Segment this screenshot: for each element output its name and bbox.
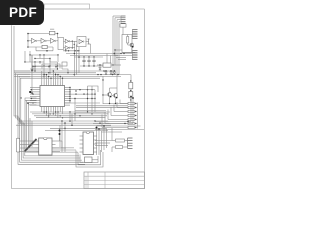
- wire J5 band: [76, 106, 128, 108]
- label R1: [50, 29, 54, 30]
- wire u2r v92: [91, 86, 93, 112]
- wire rh4: [95, 129, 144, 131]
- wire osc out: [86, 41, 89, 43]
- node u2b-1: [43, 111, 44, 112]
- header J4 bar1: [116, 139, 125, 142]
- wire q-right leg: [130, 75, 132, 104]
- node c3: [43, 54, 44, 55]
- node c8: [39, 61, 40, 62]
- wire ctrl v2: [39, 55, 41, 59]
- node extra dots: [43, 72, 95, 116]
- wire q-mid leg: [116, 75, 118, 92]
- wire bus bundle top-right: [113, 16, 119, 75]
- node u2b-4: [60, 115, 61, 116]
- wire u2r vloop: [76, 86, 98, 92]
- node r66-b: [88, 65, 89, 66]
- node ql-1: [102, 79, 103, 80]
- pin stub OSC-OUT: [88, 39, 90, 44]
- node cb-6: [87, 111, 88, 112]
- node u2l-2: [32, 93, 33, 94]
- node j-a: [114, 49, 115, 50]
- resistor R2: [103, 63, 111, 67]
- box Q1 stage: [122, 35, 132, 53]
- component X1: [85, 157, 93, 163]
- node r65-b: [112, 64, 113, 65]
- node cb-11: [71, 124, 73, 126]
- wire u2r h89: [70, 89, 95, 91]
- wire v32: [31, 55, 33, 93]
- wire oscillator feedback top: [28, 33, 58, 35]
- node g2-c: [74, 44, 75, 45]
- wire ctrl h4: [35, 66, 62, 69]
- wire oscillator left leg: [27, 34, 29, 48]
- wire g2 drop3: [78, 47, 80, 73]
- wire g2 drop2: [75, 45, 77, 75]
- wire q-left leg: [102, 76, 104, 104]
- wire J2-J3 links: [114, 50, 132, 65]
- node rl-9: [117, 74, 118, 75]
- box U1G cell: [77, 37, 86, 47]
- wire u1d out: [64, 41, 66, 47]
- node c13: [43, 76, 44, 77]
- capacitor C3: [87, 57, 90, 66]
- capacitor C2: [82, 57, 85, 66]
- node r53-3: [123, 53, 124, 54]
- node rl-8: [112, 74, 113, 75]
- wire g2 drop1: [73, 48, 75, 77]
- node u4-3: [98, 128, 100, 130]
- inverter U1A: [32, 38, 37, 43]
- component K1 box: [62, 62, 67, 66]
- node rl-7d: [114, 70, 115, 71]
- transistor Q1: [130, 43, 134, 48]
- node u2t-5: [57, 74, 58, 75]
- node rl-7: [103, 70, 104, 71]
- node g2-a: [72, 41, 74, 43]
- wire rail65: [97, 64, 121, 66]
- wire above-ic v: [33, 64, 56, 71]
- node v32-b: [31, 92, 33, 94]
- wire rh5: [102, 131, 123, 133]
- node cb-8: [61, 120, 63, 122]
- node c9: [43, 65, 44, 66]
- U2 left pins: [30, 88, 40, 106]
- wire J4 links: [112, 128, 128, 152]
- capacitor C4: [92, 57, 95, 66]
- node r57-d: [93, 56, 94, 57]
- inverter U1B: [41, 38, 46, 43]
- diode D1: [99, 65, 101, 70]
- diode D3: [110, 71, 112, 74]
- node cb-2: [74, 113, 75, 114]
- node r66-a: [83, 65, 84, 66]
- node r57-b: [83, 56, 84, 57]
- node osc-tl: [27, 33, 29, 35]
- node rl-2: [34, 70, 35, 71]
- wire osc out drop: [89, 44, 91, 54]
- node rl-6: [100, 74, 101, 75]
- node u2l-4: [32, 102, 33, 103]
- node ur-3: [91, 89, 92, 90]
- inverter U1E: [65, 39, 70, 43]
- resistor R5: [127, 37, 129, 44]
- U2 right pins: [65, 88, 71, 106]
- wire U3 right links: [56, 141, 67, 152]
- node r66-c: [93, 65, 94, 66]
- wire above-ic h1: [33, 65, 49, 67]
- wire rh1: [95, 121, 131, 123]
- node u3-2: [59, 133, 61, 135]
- wire bottom loops: [76, 151, 103, 168]
- wire rv2: [132, 98, 134, 124]
- IC U4 body: [83, 132, 94, 155]
- wire rh band2: [75, 110, 106, 112]
- node rv-2: [132, 97, 134, 99]
- wire above-ic loop: [42, 64, 60, 69]
- node u4-2: [103, 125, 105, 127]
- wire left bus loops: [14, 71, 85, 164]
- node rv-1: [130, 96, 132, 98]
- wire ctrl h5: [30, 68, 58, 70]
- IC U2 body: [40, 86, 65, 107]
- wire rh2: [93, 123, 133, 125]
- connector J3: [132, 51, 137, 60]
- node cb-12: [64, 128, 66, 130]
- box U1D cell: [58, 38, 64, 50]
- wire inverter rail: [28, 40, 58, 42]
- wire ctrl h2: [35, 59, 57, 63]
- node rs-2: [130, 90, 131, 91]
- transistor Q2: [108, 92, 112, 97]
- node rl-1: [31, 70, 32, 71]
- wire u2r h103: [65, 102, 101, 104]
- node cb-1: [69, 111, 70, 112]
- transistor Q3: [114, 93, 118, 98]
- wire rail57: [74, 56, 103, 58]
- node cb-10: [69, 120, 71, 122]
- wire U4 right bundle: [97, 126, 107, 155]
- wire ctrl stair: [62, 69, 68, 73]
- wire rv1: [130, 97, 132, 122]
- wire rh3: [97, 125, 141, 127]
- node u2t-6: [62, 78, 63, 79]
- diode D4: [113, 71, 115, 74]
- wire g2 mid: [69, 41, 77, 47]
- node osc-bl: [27, 46, 29, 48]
- node c10: [49, 65, 50, 66]
- node g50-2: [68, 50, 69, 51]
- node osc feedback tap: [57, 33, 59, 35]
- node cb-7: [91, 113, 92, 114]
- wire cb verticals: [30, 112, 72, 152]
- node c1-bot: [46, 50, 48, 52]
- wire center bus: [16, 112, 111, 130]
- wire q base links: [103, 88, 117, 96]
- node lb-3: [20, 97, 21, 98]
- node r53-2: [120, 53, 121, 54]
- IC U3 body: [39, 138, 52, 155]
- node r57-c: [88, 56, 89, 57]
- node r53-1: [114, 53, 116, 55]
- wire g2 tri drops: [66, 49, 69, 52]
- wire bl-links: [92, 150, 103, 160]
- node cb-9: [64, 122, 66, 124]
- wire v75: [74, 99, 76, 122]
- node lb-2: [27, 102, 29, 104]
- annotation arrow: [25, 139, 37, 152]
- inverter U1C: [51, 38, 56, 43]
- node g50-3: [74, 50, 75, 51]
- connector J5: [128, 102, 137, 128]
- node u2t-1: [46, 74, 47, 75]
- node rh-2: [124, 123, 125, 124]
- wire R2 feeds: [107, 54, 111, 64]
- node u2t-4: [53, 70, 54, 71]
- wire rail50 group2: [63, 50, 80, 52]
- node u2b-5: [62, 117, 63, 118]
- node cb-3: [79, 115, 80, 116]
- wire rail78: [20, 77, 100, 79]
- node rs-1: [130, 80, 131, 81]
- wire rail66r: [80, 65, 110, 67]
- wire rail76: [14, 75, 121, 77]
- node rl-3: [67, 72, 68, 73]
- wire osc-ctrl drops: [25, 51, 30, 62]
- U2 bottom pins: [42, 107, 63, 111]
- node v32-a: [31, 69, 33, 71]
- node rl-7b: [105, 70, 106, 71]
- node u2b-2: [49, 113, 50, 114]
- node r65-a: [99, 64, 100, 65]
- wire U2 right collector: [69, 88, 71, 104]
- wire rail72: [14, 72, 96, 74]
- PDF badge: [0, 0, 44, 25]
- node r57-a: [78, 56, 80, 58]
- resistor R1: [49, 31, 55, 34]
- wire rail74: [14, 74, 131, 76]
- node ur-4: [87, 93, 88, 94]
- node ur-5: [91, 93, 92, 94]
- wire ctrl v3: [57, 55, 59, 62]
- U4 pins: [80, 136, 98, 152]
- wire rail55: [70, 55, 118, 57]
- wire ctrl h3: [25, 61, 44, 63]
- header J4 bar2: [116, 146, 123, 149]
- inverter U1G: [79, 39, 84, 43]
- node ql-2: [102, 94, 103, 95]
- node c11: [57, 65, 58, 66]
- wire J1-Q1 link: [122, 27, 124, 34]
- U3 pins: [35, 141, 55, 152]
- node c12: [57, 68, 58, 69]
- node g50-1: [65, 50, 66, 51]
- node cb-4: [94, 120, 95, 121]
- wire u2r h95: [70, 93, 95, 95]
- node rl-4: [74, 74, 75, 75]
- U2 top pins: [42, 82, 63, 86]
- node c1: [29, 54, 30, 55]
- node u4-1: [96, 127, 98, 129]
- inverter U1F: [65, 46, 70, 50]
- node rs-3: [130, 99, 131, 100]
- wire ctrl drops: [32, 55, 58, 78]
- node r53-4: [74, 53, 75, 54]
- node c14: [49, 72, 50, 73]
- revision strip box top: [45, 4, 90, 9]
- capacitor C1: [42, 45, 47, 48]
- node g2-b: [72, 47, 74, 49]
- node cb-5: [99, 122, 100, 123]
- node c2: [39, 54, 40, 55]
- wire left pins link: [25, 100, 37, 105]
- diode D2: [105, 71, 107, 74]
- wire ctrl h1: [30, 54, 58, 56]
- node c7: [34, 61, 35, 62]
- wire U2 top pin wires: [42, 71, 63, 82]
- node u2t-3: [50, 78, 51, 79]
- wire osc bottom leg: [28, 47, 53, 51]
- wire U2 bottom pin wires: [42, 111, 63, 118]
- node qb-2: [115, 103, 116, 104]
- node ur-6: [94, 98, 95, 99]
- sheet border frame: [12, 9, 145, 189]
- node qb-1: [109, 103, 110, 104]
- node c6: [49, 58, 50, 59]
- node u2t-2: [48, 76, 49, 77]
- wire v14: [13, 26, 15, 71]
- connector J2: [132, 30, 137, 39]
- connector J4 ladder: [128, 138, 133, 148]
- node c5: [34, 58, 35, 59]
- wire rail53: [66, 53, 132, 55]
- node osc-in: [27, 40, 29, 42]
- node u2l-1: [31, 89, 32, 90]
- node ur-1: [75, 90, 76, 91]
- node ai-3: [48, 66, 50, 68]
- wire u2r v95: [94, 90, 96, 112]
- wire u2r v87: [87, 86, 89, 112]
- wire q1 links: [122, 35, 135, 53]
- node ai-4: [55, 66, 57, 68]
- wire left bus inner loops: [25, 98, 78, 152]
- node rl-5: [97, 74, 98, 75]
- wire stair to J1: [113, 16, 121, 21]
- wire J5 fanout: [102, 100, 128, 128]
- connector P1 left: [16, 138, 19, 152]
- node u2b-3: [55, 111, 56, 112]
- wire U4 right band: [95, 141, 112, 146]
- node u2r dots: [69, 87, 70, 102]
- wire P1-U3 links: [20, 141, 36, 152]
- node u2l-3: [31, 98, 32, 99]
- wire U3 top node: [59, 128, 61, 141]
- node ur-2: [87, 89, 88, 90]
- node lb-1: [29, 91, 31, 93]
- resistor R4: [129, 92, 133, 98]
- node u3-1: [59, 130, 61, 132]
- wire ctrl v1: [29, 55, 31, 62]
- wire u2r h99: [70, 98, 95, 100]
- wire rail71: [14, 70, 115, 72]
- wire osc v-link: [57, 34, 59, 39]
- node g50-4: [77, 50, 78, 51]
- node oc-1: [24, 61, 25, 62]
- connector J1: [120, 16, 126, 27]
- node ai-1: [32, 66, 34, 68]
- resistor R3: [129, 83, 133, 89]
- wire q bottom: [103, 97, 131, 104]
- node rh-1: [127, 121, 128, 122]
- node rl-7c: [110, 70, 111, 71]
- node c4: [57, 54, 58, 55]
- node ai-2: [34, 66, 36, 68]
- title block: [84, 172, 145, 189]
